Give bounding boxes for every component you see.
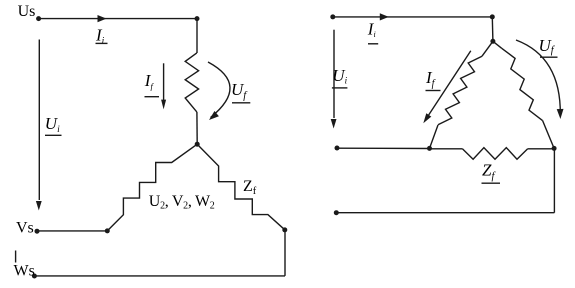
node delta apex dot [490,39,495,44]
arrowhead I_f (left) [161,100,166,110]
underline U_f (right) [540,56,558,58]
voltage arrowhead U_i (right) [331,119,337,129]
wire top node down to resistor [196,19,198,53]
resistor delta right winding [502,48,543,120]
underline U_i (right) [332,87,348,89]
wire left vertex to Z_f [430,148,463,150]
svg-text:Ws: Ws [14,263,35,280]
svg-text:Uf: Uf [539,36,556,56]
wire bottom (right) [336,212,554,214]
node bottom-left dot (right) [334,210,339,215]
svg-text:Ui: Ui [332,66,347,86]
svg-text:U2, V2, W2: U2, V2, W2 [149,193,215,212]
node top-left dot (right) [330,14,335,19]
wire feed to left vertex [337,147,430,149]
wire right winding to right vertex [543,120,555,148]
arrowhead U_f (right) [557,109,564,119]
node Vs terminal dot [35,229,40,234]
node bottom feed dot (right) [335,146,340,151]
tick mark above Ws [15,251,17,263]
arrowhead U_f (left) [209,111,219,120]
resistor delta left winding [438,56,482,125]
underline U_i (left) [45,134,62,136]
node Vs branch junction dot [105,228,110,233]
underline I_f (left) [145,96,160,98]
current arrow I_i (right) [380,13,389,20]
wire Us down to Vs (voltage path) [38,40,40,201]
node W branch junction dot [282,227,287,232]
svg-text:Ii: Ii [367,20,376,40]
resistor phase winding (left staircase to Vs) [107,144,197,231]
underline I_f (right) [426,90,441,92]
svg-text:Zf: Zf [482,160,496,182]
node right vertex dot [552,146,557,151]
node Us terminal dot [36,16,41,21]
voltage wire U_i (right) [333,30,335,118]
wire branch down to bottom [284,230,286,276]
wire apex to left winding [482,41,493,56]
wire right vertex down [553,148,555,212]
node left vertex dot [427,146,432,151]
wire apex to right winding [493,41,502,48]
wire bottom to Ws [34,275,285,277]
wire Us to top node [39,18,197,20]
voltage arrowhead U_i (left) [36,201,42,211]
underline I_i (left) [96,42,108,44]
svg-text:Ui: Ui [45,114,60,135]
svg-text:Zf: Zf [243,178,257,197]
svg-text:Vs: Vs [16,219,34,236]
underline I_i (right) [368,43,378,45]
underline Z_f (right) [482,182,501,184]
node top junction dot (right) [490,14,495,19]
voltage arc U_f (left) [208,62,230,118]
wire left winding to left vertex [430,125,439,148]
wire Z_f to right vertex [528,148,554,150]
svg-text:Us: Us [18,3,36,20]
node Ws terminal dot [32,274,37,279]
current arrow I_f (right) [428,51,471,116]
underline U_f (left) [232,102,250,104]
resistor field winding (left, vertical zigzag) [185,53,198,112]
arrowhead I_f (right) [423,113,431,123]
current arrow I_i (left) [98,15,107,22]
current arrow I_f (left) [163,63,165,100]
node top junction dot (left) [195,16,200,21]
svg-text:Uf: Uf [231,80,248,102]
wire top (right) [333,16,493,18]
wire branch to Vs [37,230,107,232]
node star point dot [195,142,200,147]
resistor phase winding (right staircase, Z_f) [197,144,285,230]
wire resistor to star point [196,112,198,144]
svg-text:If: If [425,68,436,90]
resistor Z_f (bottom zigzag) [462,148,527,160]
voltage arc U_f (right) [516,40,560,115]
svg-text:If: If [144,71,155,91]
wire top node to delta apex [491,17,494,41]
